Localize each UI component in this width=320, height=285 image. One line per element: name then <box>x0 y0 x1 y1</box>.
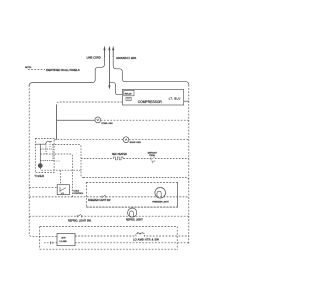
wire feed vertical <box>56 105 58 140</box>
wire defrost heater line left <box>81 158 113 160</box>
wire left prong S to left bus <box>29 56 104 86</box>
wire bottom enclosure line <box>40 248 178 250</box>
wire plug stub <box>44 242 57 244</box>
svg-text:GROUND LT. GRN.: GROUND LT. GRN. <box>116 58 137 60</box>
wire evaporator fan line <box>54 139 189 141</box>
wire condenser fan line <box>57 119 95 121</box>
svg-text:IDENTIFIED IN ALL PANELS: IDENTIFIED IN ALL PANELS <box>46 68 80 72</box>
evaporator fan motor <box>123 137 129 143</box>
svg-text:TIMER: TIMER <box>34 174 44 178</box>
svg-text:FREEZER LIGHT: FREEZER LIGHT <box>152 202 169 204</box>
wire refrig light line <box>29 215 189 217</box>
note dashed sample <box>28 69 45 71</box>
svg-text:LO AMB HTR & SW: LO AMB HTR & SW <box>133 238 159 242</box>
wire compressor out to right bus <box>184 100 189 102</box>
refrigerator compartment top line <box>86 206 177 208</box>
refrig light switch <box>77 214 81 217</box>
wire low amb heater line <box>75 233 189 236</box>
svg-text:LINE CORD: LINE CORD <box>87 56 101 60</box>
freezer light switch <box>102 195 106 198</box>
heater bump element <box>137 233 144 235</box>
svg-text:DEF. HEATER: DEF. HEATER <box>112 153 127 156</box>
svg-text:COMPRESSOR: COMPRESSOR <box>138 100 163 104</box>
ground arrow down <box>108 85 110 89</box>
cold control box <box>57 185 69 195</box>
wire freezer light line <box>29 196 189 198</box>
wire compressor left dashed <box>57 102 123 105</box>
svg-text:RELAY: RELAY <box>125 92 133 95</box>
line cord prong mid <box>108 46 110 57</box>
svg-text:FREEZER LIGHT SW: FREEZER LIGHT SW <box>88 200 111 202</box>
line cord prong L <box>103 46 105 57</box>
svg-text:REFRIG. LIGHT SW.: REFRIG. LIGHT SW. <box>68 219 92 222</box>
line cord prong R <box>112 46 114 57</box>
timer contact arm <box>35 142 60 164</box>
svg-text:REFRIG. LIGHT: REFRIG. LIGHT <box>126 220 143 222</box>
svg-text:COND. FAN: COND. FAN <box>101 122 113 125</box>
wire branch to relay <box>109 82 122 94</box>
wire lights feed line <box>84 177 189 180</box>
svg-text:MTR: MTR <box>62 238 67 240</box>
ground prong wire <box>108 56 110 86</box>
wire timer mid output <box>40 154 72 197</box>
wire timer sw output <box>52 145 84 178</box>
condenser fan motor <box>95 117 101 123</box>
compressor box U1 <box>122 90 183 106</box>
defrost thermostat <box>151 157 155 163</box>
svg-text:CONTROL: CONTROL <box>73 193 84 195</box>
timer motor <box>38 164 42 168</box>
svg-text:NOTE:: NOTE: <box>25 67 32 69</box>
wire timer motor output <box>40 168 81 171</box>
timer box dashed enclosure <box>35 139 54 173</box>
wire heater to stat <box>124 158 151 160</box>
defrost heater zigzag <box>113 157 124 160</box>
svg-text:TERM.: TERM. <box>149 155 155 157</box>
left kit vertical <box>39 227 41 250</box>
svg-text:EVAP. FAN: EVAP. FAN <box>130 141 141 144</box>
refrigerator box right edge upper <box>177 183 179 208</box>
svg-text:LO AMB: LO AMB <box>60 240 68 243</box>
plug symbol <box>51 241 53 244</box>
wire left bus to cold control <box>29 186 57 188</box>
refrigerator light bulb <box>128 208 137 217</box>
wire feed to cold control top <box>59 170 61 185</box>
refrig bottom dashed line <box>40 226 178 228</box>
wire stat to right bus <box>155 158 189 160</box>
left bus wire <box>29 85 57 236</box>
right kit vertical <box>176 227 178 250</box>
wire low amb lower line <box>75 242 189 244</box>
wire right prong S-curve to right bus <box>113 56 189 85</box>
freezer compartment dashed box <box>86 183 177 208</box>
right bus wire <box>188 85 190 244</box>
cold control contact <box>60 187 66 194</box>
svg-text:LT. BLU: LT. BLU <box>169 96 181 100</box>
relay box <box>124 90 134 95</box>
low ambient module box <box>57 233 75 245</box>
overload OL <box>126 98 131 101</box>
freezer light bulb <box>155 188 166 199</box>
